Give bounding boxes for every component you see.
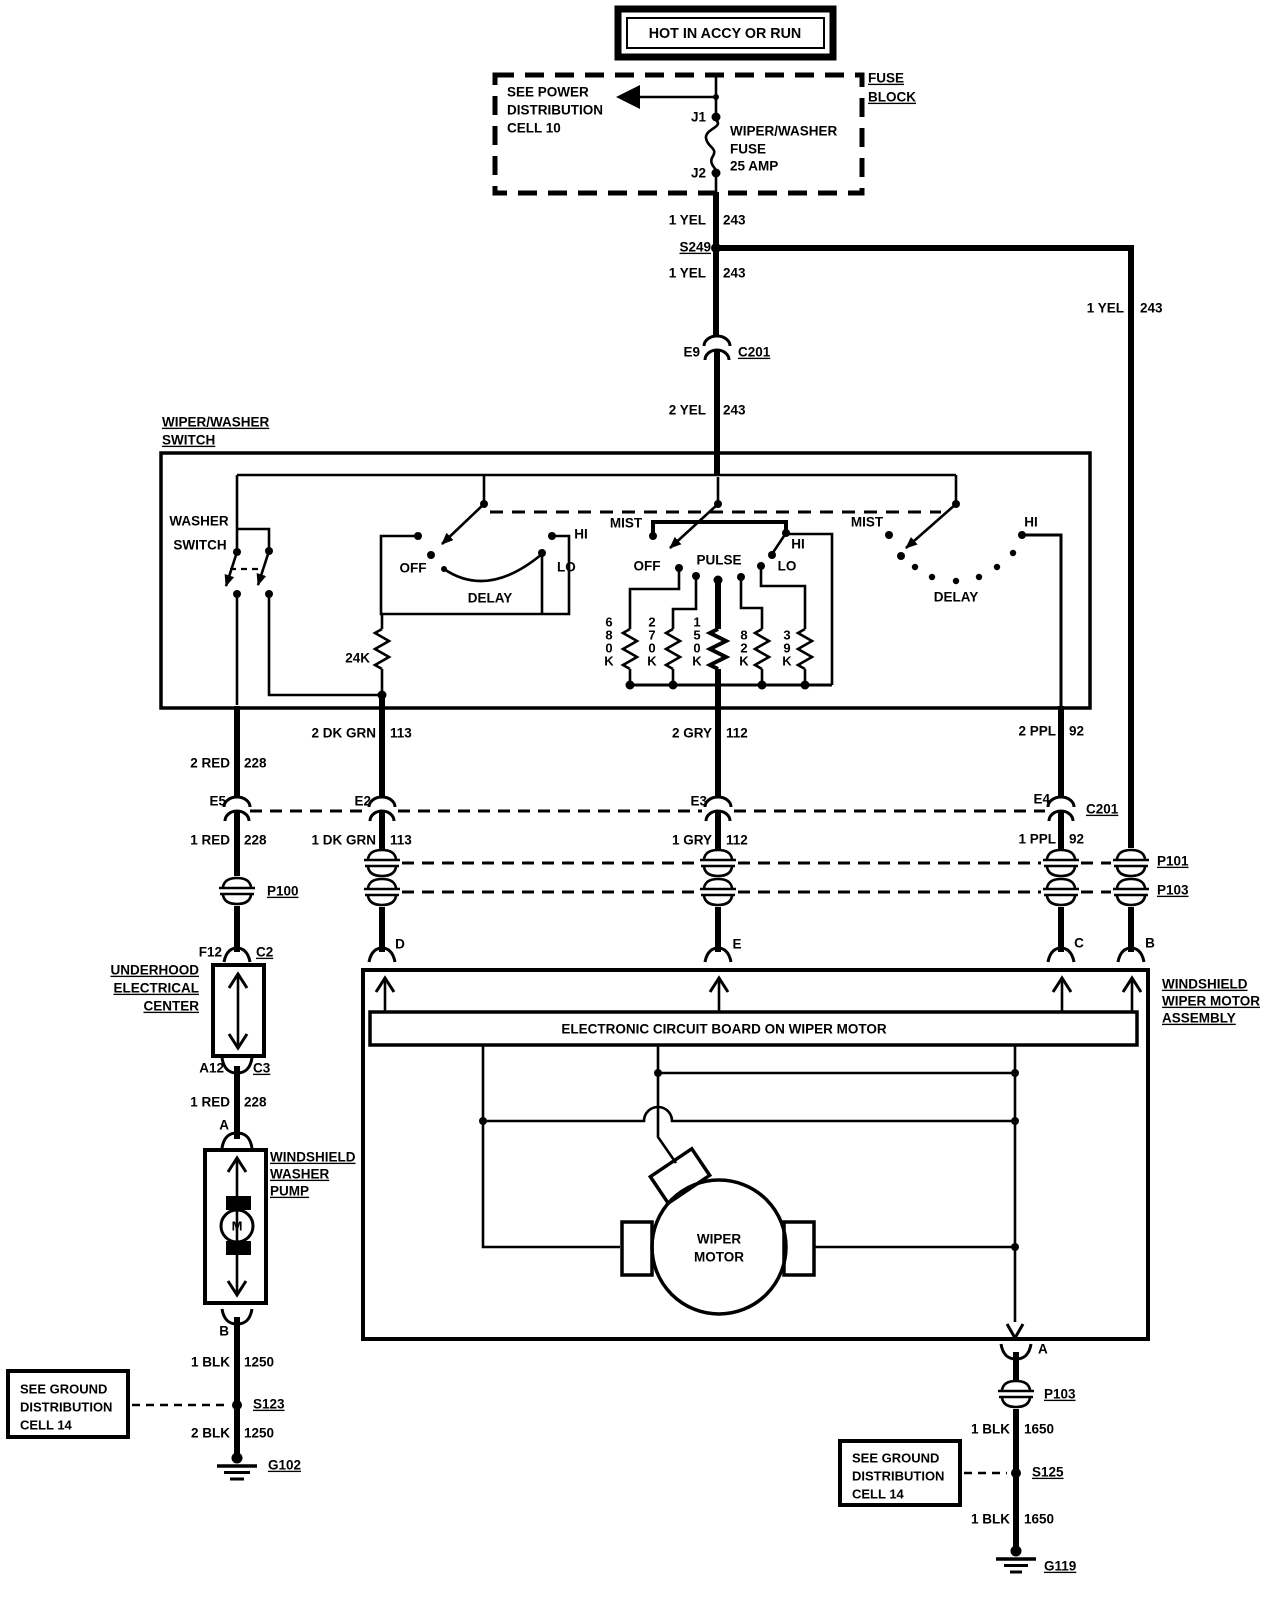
wire 1 BLK 1650 upper [971,1409,1054,1551]
brush upper tilted [650,1149,709,1203]
box underhood electrical center [213,965,264,1056]
box windshield washer pump [205,1150,266,1303]
connector E9 C201 [683,336,770,360]
svg-text:UNDERHOOD: UNDERHOOD [110,963,199,978]
svg-text:WIPER/WASHER: WIPER/WASHER [730,124,838,139]
contact OFF dot (speed section) [897,552,905,560]
svg-text:E9: E9 [683,345,700,360]
svg-text:WASHER: WASHER [169,514,229,529]
terminal A12 C3 [199,1058,271,1076]
connector E5 [209,794,250,821]
delay dotted positions [912,550,1016,584]
svg-text:1650: 1650 [1024,1422,1054,1437]
svg-text:1 RED: 1 RED [190,1095,230,1110]
svg-text:OFF: OFF [634,559,661,574]
svg-text:K: K [739,654,749,669]
svg-text:1 YEL: 1 YEL [669,266,706,281]
connector E4 C201 [1033,792,1118,821]
contact MIST (speed section) [851,515,893,539]
wire E9 to switch, label 2 YEL 243 [669,351,746,476]
svg-text:MIST: MIST [610,516,643,531]
svg-text:243: 243 [1140,301,1163,316]
box windshield wiper motor assembly [363,970,1148,1339]
wire board right drop [1011,1045,1019,1322]
wire HI output (2 PPL) [1022,535,1061,712]
svg-text:B: B [1145,936,1155,951]
terminal E [705,937,742,962]
wire trunk S249 right and down to wiper motor (1 YEL 243) [716,248,1163,848]
svg-text:SEE GROUND: SEE GROUND [852,1451,939,1466]
entry arrow D [376,978,394,1012]
svg-text:CELL 10: CELL 10 [507,121,561,136]
svg-text:K: K [604,654,614,669]
terminal A below motor box [1001,1342,1048,1359]
node 24K output junction [378,691,387,700]
svg-text:J2: J2 [691,166,706,181]
svg-text:WIPER MOTOR: WIPER MOTOR [1162,994,1260,1009]
svg-text:92: 92 [1069,724,1084,739]
box wiper/washer switch [161,453,1090,708]
wire washer switch outputs [237,594,382,705]
note SEE POWER DISTRIBUTION CELL 10 [507,85,603,136]
svg-text:1250: 1250 [244,1355,274,1370]
wire 2 GRY 112 [672,710,748,798]
svg-text:FUSE: FUSE [730,142,766,157]
wire board left drop to motor [479,1045,620,1247]
contact HI (speed section) [1018,515,1038,539]
wire 1 RED 228 to pump [190,1066,267,1139]
svg-text:C: C [1074,936,1084,951]
svg-text:228: 228 [244,756,267,771]
svg-text:C201: C201 [738,345,771,360]
washer switch blades [226,551,269,586]
svg-text:C201: C201 [1086,802,1119,817]
svg-text:WIPER: WIPER [697,1232,742,1247]
svg-text:DISTRIBUTION: DISTRIBUTION [507,103,603,118]
wire board drop to upper brush with hop [654,1045,676,1163]
svg-text:113: 113 [390,833,412,848]
label 2 BLK 1250 [191,1426,274,1441]
svg-text:P101: P101 [1157,854,1189,869]
svg-text:1 BLK: 1 BLK [971,1512,1010,1527]
label 1 BLK 1650 lower [971,1512,1054,1527]
svg-text:SEE POWER: SEE POWER [507,85,589,100]
entry arrow E [710,978,728,1012]
brush right [784,1222,814,1275]
switch blade (delay section) [442,500,488,544]
contact LO (delay section) [538,549,576,614]
wire PPL to C [1058,907,1064,952]
wire RED to F12 [234,906,240,952]
terminal D [369,937,405,962]
node J2 [691,166,721,181]
wire fuse to S249, label 1 YEL 243 [669,173,746,337]
wire internal feed rail [237,474,956,477]
svg-text:DISTRIBUTION: DISTRIBUTION [20,1400,112,1415]
svg-text:E5: E5 [209,794,226,809]
splice S123 [232,1397,285,1412]
connector pair P101 P103 on trunk [1113,850,1149,876]
contact OFF (delay section) [400,551,436,576]
svg-text:DELAY: DELAY [468,591,513,606]
wire through UEC with arrows [229,974,247,1048]
svg-text:J1: J1 [691,110,707,125]
terminal A (pump) [219,1118,252,1148]
resistor 24K [345,614,389,695]
svg-text:1 YEL: 1 YEL [1087,301,1124,316]
wire 2 RED 228 [190,706,267,798]
wire 1 DK GRN 113 [311,812,412,849]
box electronic circuit board [370,1012,1137,1045]
label WASHER SWITCH [169,514,229,553]
note box SEE GROUND DISTRIBUTION CELL 14 (left) [8,1371,228,1437]
label WINDSHIELD WASHER PUMP [270,1150,356,1199]
connector E3 [690,794,731,821]
splice S125 [1011,1465,1064,1480]
splice S249 [679,240,721,255]
svg-text:SWITCH: SWITCH [162,433,215,448]
svg-text:F12: F12 [199,945,222,960]
svg-text:WASHER: WASHER [270,1167,330,1182]
note box SEE GROUND DISTRIBUTION CELL 14 (right) [840,1441,1007,1505]
svg-text:CENTER: CENTER [143,999,199,1014]
connector P100 [219,878,255,904]
svg-text:112: 112 [726,833,748,848]
connector E2 [354,794,395,821]
svg-text:112: 112 [726,726,748,741]
svg-text:HI: HI [1024,515,1038,530]
svg-text:G119: G119 [1044,1559,1076,1574]
svg-text:E4: E4 [1033,792,1050,807]
wire DK GRN to D [379,907,385,952]
contact HI (delay section) [548,527,588,542]
svg-text:DISTRIBUTION: DISTRIBUTION [852,1469,944,1484]
washer switch contacts [233,547,273,598]
svg-text:A12: A12 [199,1061,224,1076]
wire right brush to drop [814,1246,1015,1249]
wire 24K junction down (2 DK GRN feed) [379,695,385,712]
contact PULSE wire [714,576,723,630]
svg-text:SWITCH: SWITCH [173,538,226,553]
svg-text:243: 243 [723,266,746,281]
terminal B [1118,936,1155,962]
svg-text:A: A [1038,1342,1048,1357]
svg-text:1 YEL: 1 YEL [669,213,706,228]
dashed rows P101 P103 [402,863,1111,892]
svg-text:LO: LO [778,559,797,574]
svg-text:C2: C2 [256,945,273,960]
svg-text:1 BLK: 1 BLK [191,1355,230,1370]
svg-text:S249: S249 [679,240,711,255]
svg-text:CELL 14: CELL 14 [852,1487,905,1502]
entry arrow B [1123,978,1141,1012]
svg-text:243: 243 [723,213,746,228]
resistor 680K [604,615,637,685]
resistor 82K [739,628,769,685]
svg-text:2 YEL: 2 YEL [669,403,706,418]
contact 1 wire to 680K [630,564,683,629]
svg-text:A: A [219,1118,229,1133]
svg-text:MIST: MIST [851,515,884,530]
svg-text:PULSE: PULSE [696,553,741,568]
connector pair on DK GRN [364,850,400,876]
svg-text:BLOCK: BLOCK [868,90,916,105]
label UNDERHOOD ELECTRICAL CENTER [110,963,199,1014]
svg-text:1250: 1250 [244,1426,274,1441]
fuse block dashed boundary [495,75,862,193]
arrow to power distribution [616,85,716,109]
fuse WIPER/WASHER FUSE 25 AMP [706,120,838,174]
svg-text:P103: P103 [1044,1387,1076,1402]
svg-text:WIPER/WASHER: WIPER/WASHER [162,415,270,430]
svg-text:D: D [395,937,405,952]
contact MIST (wiper section) [610,516,657,540]
ground G119 [996,1546,1076,1574]
svg-text:K: K [692,654,702,669]
svg-text:C3: C3 [253,1061,271,1076]
wire through pump with arrows [228,1158,246,1295]
svg-text:2 PPL: 2 PPL [1018,724,1056,739]
node J1 [691,110,721,125]
svg-text:E: E [732,937,741,952]
wire 1 PPL 92 [1018,812,1084,849]
svg-text:SEE GROUND: SEE GROUND [20,1382,107,1397]
pump motor M [221,1196,253,1255]
switch blade (wiper section) [670,477,722,548]
bus box HOT IN ACCY OR RUN [618,9,833,57]
svg-text:2 GRY: 2 GRY [672,726,712,741]
svg-text:HI: HI [791,537,805,552]
wire feedback row 1 [658,1072,1015,1075]
switch blade (speed section) [906,500,960,548]
svg-text:ELECTRONIC CIRCUIT BOARD ON WI: ELECTRONIC CIRCUIT BOARD ON WIPER MOTOR [561,1022,886,1037]
connector pair on PPL [1043,850,1079,876]
wire 1 RED 228 [190,812,267,876]
svg-text:CELL 14: CELL 14 [20,1418,73,1433]
resistor 39K [782,628,812,685]
label WINDSHIELD WIPER MOTOR ASSEMBLY [1162,977,1260,1026]
wire stub to washer switch [237,475,269,552]
connector pair on GRY [700,850,736,876]
label WIPER/WASHER SWITCH [162,415,270,448]
label FUSE BLOCK [868,71,916,105]
svg-text:K: K [647,654,657,669]
contact HI (wiper section) [768,537,805,559]
connector row dashed link C201 [250,810,1045,813]
contact 2 wire to 270K [673,572,700,629]
connector P103 (motor ground) [998,1381,1034,1407]
svg-text:P103: P103 [1157,883,1189,898]
svg-text:DELAY: DELAY [934,590,979,605]
terminal C [1048,936,1084,962]
svg-text:FUSE: FUSE [868,71,904,86]
exit arrow A [1007,1324,1023,1338]
svg-text:1 DK GRN: 1 DK GRN [311,833,376,848]
svg-text:1650: 1650 [1024,1512,1054,1527]
svg-text:P100: P100 [267,884,299,899]
resistor 270K [647,615,680,685]
label 1 YEL 243 below S249 [669,266,746,281]
mechanical link dashed [490,511,941,514]
svg-text:HOT IN ACCY OR RUN: HOT IN ACCY OR RUN [649,26,802,42]
terminal F12 C2 [199,945,274,962]
svg-text:24K: 24K [345,651,370,666]
svg-text:25 AMP: 25 AMP [730,159,778,174]
svg-text:WINDSHIELD: WINDSHIELD [270,1150,356,1165]
svg-text:1 PPL: 1 PPL [1018,832,1056,847]
svg-text:B: B [219,1324,229,1339]
svg-text:OFF: OFF [400,561,427,576]
svg-text:S123: S123 [253,1397,285,1412]
wire 1 BLK 1250 [191,1317,274,1458]
svg-text:MOTOR: MOTOR [694,1250,744,1265]
wire from bus to fuse [713,75,719,117]
wire resistor common rail [626,681,833,690]
svg-text:PUMP: PUMP [270,1184,309,1199]
svg-text:G102: G102 [268,1458,301,1473]
wire 1 GRY 112 [672,812,748,849]
svg-text:1 BLK: 1 BLK [971,1422,1010,1437]
svg-text:M: M [232,1219,243,1234]
svg-text:ELECTRICAL: ELECTRICAL [114,981,200,996]
svg-text:LO: LO [557,560,576,575]
wire GRY to E [715,907,721,952]
svg-text:2 DK GRN: 2 DK GRN [311,726,376,741]
wire stub to delay switch pivot [483,475,486,504]
entry arrow C [1053,978,1071,1012]
wire stub to high-speed switch pivot [955,475,958,504]
wire delay-section contact bracket [381,532,569,614]
motor WIPER MOTOR [652,1180,786,1314]
svg-text:E2: E2 [354,794,371,809]
svg-text:228: 228 [244,833,267,848]
svg-text:2 BLK: 2 BLK [191,1426,230,1441]
resistor 150K [692,615,726,712]
wire A to P103 [1013,1352,1019,1380]
svg-text:1 RED: 1 RED [190,833,230,848]
svg-text:ASSEMBLY: ASSEMBLY [1162,1011,1236,1026]
brush left [622,1222,652,1275]
contact LO wire to 39K [757,562,805,629]
svg-text:243: 243 [723,403,746,418]
wire trunk to B [1128,907,1134,952]
wire MIST to HI (wiper section) [653,522,832,685]
svg-text:E3: E3 [690,794,707,809]
contact 4 wire to 82K [737,573,762,629]
svg-text:2 RED: 2 RED [190,756,230,771]
svg-text:228: 228 [244,1095,267,1110]
svg-text:S125: S125 [1032,1465,1064,1480]
delay range arc [441,554,542,606]
svg-text:113: 113 [390,726,412,741]
svg-text:1 GRY: 1 GRY [672,833,712,848]
svg-text:HI: HI [574,527,588,542]
svg-text:K: K [782,654,792,669]
terminal B (pump) [219,1309,252,1339]
wire 2 DK GRN 113 [311,710,412,798]
ground G102 [217,1453,301,1480]
wire feedback row 2 [483,1107,1015,1121]
wire 2 PPL 92 [1018,710,1084,798]
svg-text:WINDSHIELD: WINDSHIELD [1162,977,1248,992]
svg-text:92: 92 [1069,832,1084,847]
